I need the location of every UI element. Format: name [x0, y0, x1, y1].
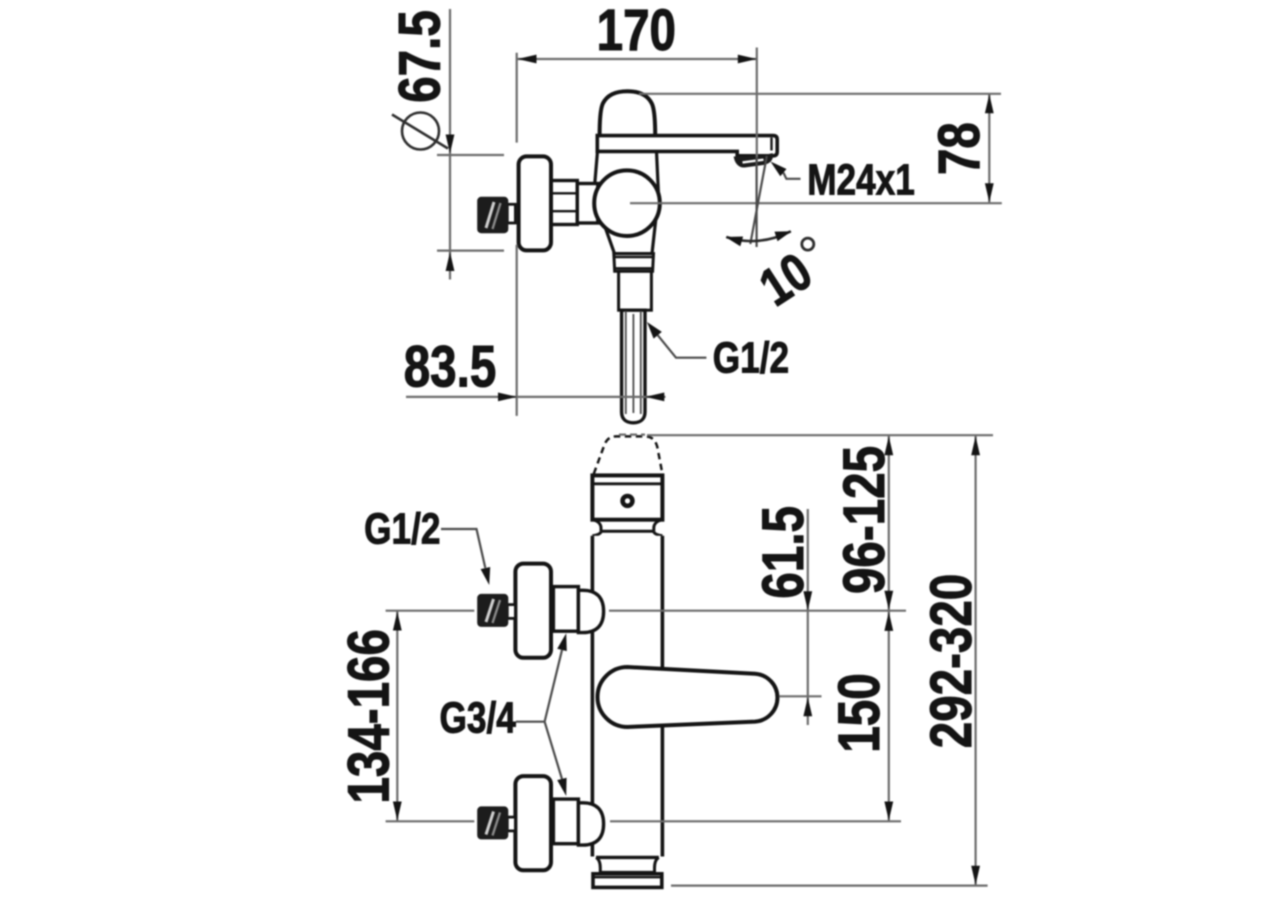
svg-text:G3/4: G3/4 — [440, 694, 516, 743]
svg-text:67.5: 67.5 — [388, 10, 453, 103]
svg-text:M24x1: M24x1 — [807, 156, 915, 205]
svg-text:83.5: 83.5 — [404, 335, 497, 400]
svg-text:292-320: 292-320 — [920, 574, 985, 748]
svg-text:170: 170 — [597, 0, 676, 63]
svg-text:61.5: 61.5 — [752, 506, 817, 599]
svg-text:78: 78 — [928, 122, 993, 175]
svg-text:150: 150 — [828, 673, 893, 752]
svg-text:G1/2: G1/2 — [364, 505, 440, 554]
svg-text:96-125: 96-125 — [833, 446, 898, 594]
svg-text:134-166: 134-166 — [337, 629, 402, 803]
svg-text:G1/2: G1/2 — [713, 334, 789, 383]
